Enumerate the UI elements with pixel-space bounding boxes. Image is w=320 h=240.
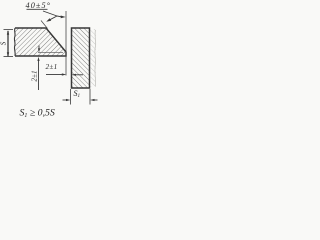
svg-text:2±1: 2±1 bbox=[46, 63, 58, 71]
plate 1 (left, beveled) hatching bbox=[15, 28, 66, 56]
svg-text:S: S bbox=[0, 41, 7, 45]
root face dimension 2±1 (vertical) bbox=[38, 51, 63, 53]
dimension S (left thickness) bbox=[4, 30, 14, 58]
plate 2 outline bbox=[72, 28, 90, 88]
plate 1 break line (wavy left edge) bbox=[13, 28, 16, 56]
plate 2 faint break-edge ghost bbox=[91, 29, 97, 87]
vertical extension line at root bbox=[65, 11, 67, 76]
bevel edge extension line bbox=[41, 21, 48, 29]
plate 2 (right, vertical) hatching bbox=[72, 28, 90, 88]
plate 1 outline bbox=[15, 28, 66, 56]
angle leader and arrows bbox=[43, 11, 66, 22]
svg-text:2±1: 2±1 bbox=[31, 70, 39, 81]
dimension S1 (bottom) bbox=[63, 89, 98, 105]
svg-text:40±5°: 40±5° bbox=[26, 1, 52, 10]
